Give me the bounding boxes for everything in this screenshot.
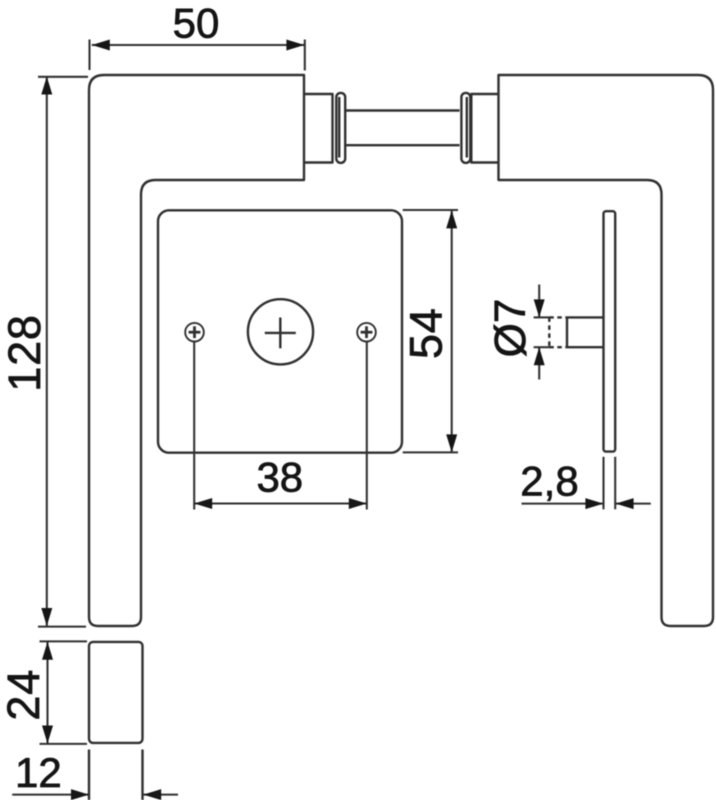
svg-text:12: 12 <box>15 749 62 796</box>
svg-text:38: 38 <box>256 454 303 501</box>
svg-text:24: 24 <box>0 669 49 721</box>
svg-text:50: 50 <box>173 0 220 47</box>
svg-text:Ø7: Ø7 <box>486 299 535 358</box>
svg-text:2,8: 2,8 <box>520 457 578 504</box>
svg-text:128: 128 <box>0 314 50 391</box>
svg-text:54: 54 <box>401 307 452 359</box>
